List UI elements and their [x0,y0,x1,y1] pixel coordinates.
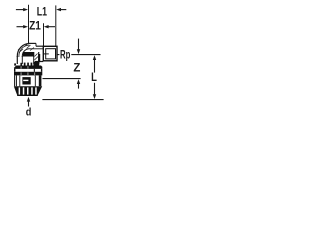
svg-text:L1: L1 [37,4,48,18]
svg-text:L: L [91,70,97,84]
svg-text:Z: Z [73,60,80,74]
svg-text:d: d [26,107,32,119]
svg-text:Rp: Rp [60,47,70,61]
svg-text:Z1: Z1 [29,19,41,33]
